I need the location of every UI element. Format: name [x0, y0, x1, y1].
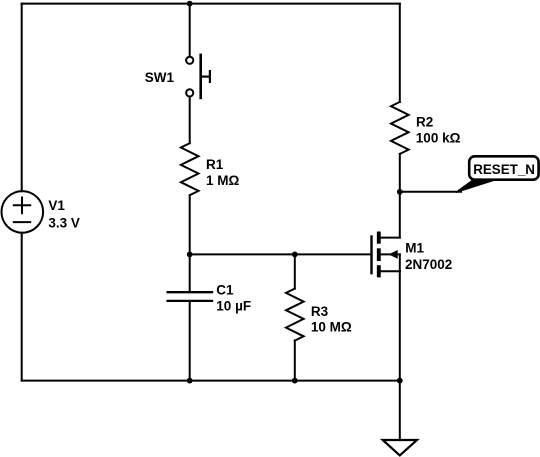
wire to RESET_N flag [400, 191, 461, 193]
node A junction dot [187, 252, 193, 258]
ground [383, 440, 417, 455]
node junction dot R3 top [292, 252, 298, 258]
wire top rail [22, 3, 400, 5]
node junction dot bottom right [397, 378, 403, 384]
wire R1 to node A [189, 195, 191, 254]
svg-text:10 MΩ: 10 MΩ [311, 320, 352, 335]
resistor R1 [181, 143, 199, 195]
wire gate row (node A to gate) [190, 253, 371, 255]
node junction dot top (switch branch) [187, 1, 193, 7]
wire ground stem [399, 381, 401, 440]
wire drain vertical [399, 192, 401, 238]
net flag RESET_N [456, 156, 539, 192]
svg-text:10 µF: 10 µF [216, 299, 251, 314]
resistor R2 [391, 102, 409, 154]
svg-text:R3: R3 [311, 304, 329, 319]
svg-text:SW1: SW1 [145, 70, 175, 85]
wire left rail upper [21, 4, 23, 192]
wire bottom rail [22, 380, 400, 382]
wire C1 top lead [189, 254, 191, 292]
wire left rail lower [21, 233, 23, 381]
node junction dot C1 bottom [187, 378, 193, 384]
switch SW1 [186, 55, 210, 98]
node junction dot RESET [397, 189, 403, 195]
svg-text:R1: R1 [206, 157, 224, 172]
mosfet M1 [372, 232, 400, 278]
svg-text:R2: R2 [416, 114, 433, 129]
svg-text:RESET_N: RESET_N [473, 162, 535, 177]
capacitor C1 [168, 292, 212, 301]
wire R3 top lead [294, 254, 296, 288]
wire C1 bottom lead [189, 301, 191, 381]
svg-text:V1: V1 [48, 198, 65, 213]
wire source to bottom rail [399, 271, 401, 380]
wire SW1 to R1 [189, 97, 191, 143]
svg-text:M1: M1 [405, 240, 424, 255]
wire R3 bottom lead [294, 341, 296, 381]
wire right rail top (to R2) [399, 4, 401, 102]
resistor R3 [286, 289, 304, 341]
node junction dot R3 bottom [292, 378, 298, 384]
svg-text:1 MΩ: 1 MΩ [206, 173, 240, 188]
svg-text:3.3 V: 3.3 V [48, 215, 80, 230]
svg-text:2N7002: 2N7002 [405, 257, 452, 272]
wire R2 to drain node [399, 154, 401, 192]
svg-text:100 kΩ: 100 kΩ [416, 131, 461, 146]
svg-text:C1: C1 [216, 283, 234, 298]
wire SW1 top lead [189, 4, 191, 57]
voltage source V1 [2, 191, 44, 233]
